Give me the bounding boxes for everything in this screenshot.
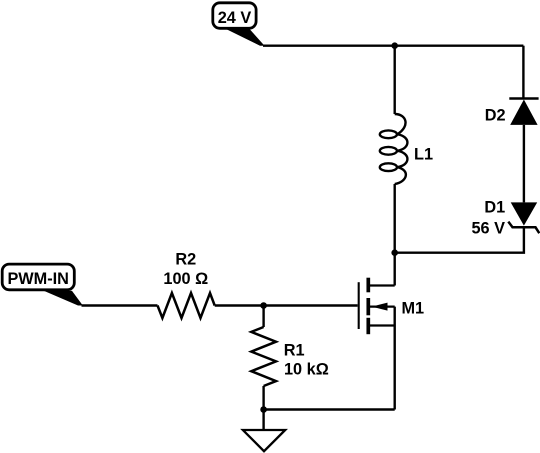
wire R2 to gate: [215, 304, 358, 306]
wire top rail: [263, 45, 523, 47]
wire L1 bottom lead: [394, 184, 396, 253]
wire R1 top lead: [262, 306, 264, 328]
wire bottom rail: [264, 408, 395, 410]
svg-text:L1: L1: [414, 146, 433, 164]
drain stub: [370, 284, 395, 286]
resistor R2: [158, 293, 215, 318]
svg-text:R1: R1: [284, 342, 305, 360]
svg-text:PWM-IN: PWM-IN: [7, 270, 69, 288]
wire PWM-IN to R2: [82, 304, 158, 306]
svg-text:10 kΩ: 10 kΩ: [284, 361, 329, 379]
wire source lead: [394, 307, 396, 410]
body arrow: [372, 303, 388, 311]
body stub: [370, 306, 395, 308]
wire R1 bottom lead: [262, 386, 264, 410]
svg-text:24 V: 24 V: [218, 9, 252, 27]
node 24V flag: [213, 3, 265, 46]
node PWM-IN flag: [2, 264, 83, 305]
zener diode D1: [508, 202, 539, 233]
svg-text:D2: D2: [485, 106, 506, 124]
junction dot top node: [391, 42, 398, 49]
svg-text:56 V: 56 V: [472, 219, 506, 237]
inductor L1: [380, 114, 408, 184]
resistor R1: [251, 327, 276, 386]
wire L1 top lead: [394, 46, 396, 114]
diode D2: [509, 99, 538, 125]
svg-text:R2: R2: [175, 250, 196, 268]
junction dot drain node: [391, 249, 398, 256]
svg-text:M1: M1: [402, 300, 425, 318]
gate bar: [358, 282, 360, 329]
junction dot ground node: [260, 406, 267, 413]
wire drain lead: [394, 253, 396, 286]
wire between D2 and D1: [523, 125, 525, 202]
wire right branch upper: [522, 46, 524, 99]
junction dot gate/R1 node: [260, 302, 267, 309]
mosfet M1: [359, 278, 395, 335]
svg-text:100 Ω: 100 Ω: [163, 270, 208, 288]
ground lead: [262, 410, 264, 431]
channel segment body: [366, 298, 370, 315]
wire right branch lower: [395, 227, 524, 253]
source stub: [370, 324, 395, 326]
channel segment drain: [366, 278, 370, 293]
ground: [243, 430, 285, 451]
svg-text:D1: D1: [484, 198, 505, 216]
channel segment source: [366, 318, 370, 334]
